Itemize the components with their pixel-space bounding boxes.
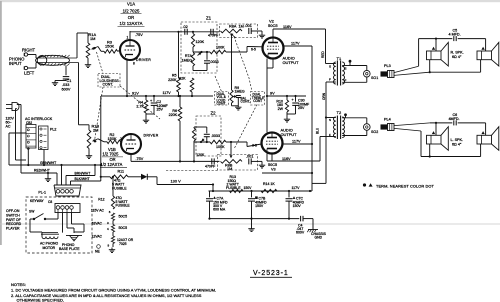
svg-text:R. SPK.: R. SPK. bbox=[451, 50, 464, 54]
svg-text:+: + bbox=[292, 98, 295, 102]
svg-text:.75V: .75V bbox=[136, 157, 144, 161]
svg-text:BRN/WHT: BRN/WHT bbox=[75, 171, 91, 175]
svg-text:50C5: 50C5 bbox=[119, 215, 128, 219]
svg-text:GND: GND bbox=[315, 236, 323, 240]
svg-text:.0033: .0033 bbox=[210, 60, 219, 64]
svg-text:120K: 120K bbox=[196, 40, 205, 44]
svg-text:CONT: CONT bbox=[217, 102, 226, 106]
svg-text:OTHERWISE SPECIFIED.: OTHERWISE SPECIFIED. bbox=[17, 298, 65, 302]
svg-text:OFF-ON: OFF-ON bbox=[6, 209, 20, 213]
svg-text:Z2: Z2 bbox=[211, 111, 217, 116]
svg-text:115V AC: 115V AC bbox=[91, 209, 105, 213]
svg-text:8: 8 bbox=[133, 62, 135, 66]
svg-text:KEYWAY: KEYWAY bbox=[30, 199, 45, 203]
svg-text:TERM. NEAREST COLOR DOT: TERM. NEAREST COLOR DOT bbox=[376, 184, 435, 189]
svg-text:25V: 25V bbox=[157, 108, 164, 112]
svg-text:GRN/WHT: GRN/WHT bbox=[40, 161, 56, 165]
svg-text:3-8: 3-8 bbox=[252, 144, 257, 148]
svg-text:100K: 100K bbox=[216, 46, 225, 50]
svg-text:220K: 220K bbox=[168, 78, 177, 82]
svg-text:SWITCH: SWITCH bbox=[6, 213, 20, 217]
svg-text:PL2: PL2 bbox=[50, 127, 56, 131]
svg-text:PL4: PL4 bbox=[384, 117, 391, 121]
svg-text:50C5: 50C5 bbox=[268, 23, 278, 28]
svg-text:SW: SW bbox=[29, 210, 35, 214]
svg-text:.75V: .75V bbox=[135, 33, 143, 37]
svg-text:BASE PLATE: BASE PLATE bbox=[59, 247, 80, 251]
svg-text:25V: 25V bbox=[298, 106, 305, 110]
svg-text:9: 9 bbox=[108, 243, 110, 247]
svg-text:F: F bbox=[329, 78, 331, 82]
svg-text:4MFD.: 4MFD. bbox=[449, 117, 460, 121]
svg-text:V-2523-1: V-2523-1 bbox=[253, 270, 289, 277]
svg-text:BLK/WHT: BLK/WHT bbox=[75, 177, 90, 181]
svg-text:600 MA: 600 MA bbox=[213, 208, 226, 212]
svg-text:V1A: V1A bbox=[127, 2, 135, 7]
svg-text:1/2 7025: 1/2 7025 bbox=[123, 8, 140, 13]
svg-text:50C5: 50C5 bbox=[119, 226, 128, 230]
svg-text:82K: 82K bbox=[179, 76, 186, 80]
svg-text:120K: 120K bbox=[196, 153, 205, 157]
svg-text:C8: C8 bbox=[48, 200, 52, 204]
svg-text:FUSIBLE: FUSIBLE bbox=[112, 186, 127, 190]
svg-text:1/2 12AX7A: 1/2 12AX7A bbox=[120, 21, 143, 26]
svg-text:470PF: 470PF bbox=[208, 34, 218, 38]
svg-text:R14 1K: R14 1K bbox=[263, 182, 275, 186]
svg-text:117V: 117V bbox=[163, 91, 172, 95]
svg-text:S: S bbox=[345, 67, 347, 71]
svg-text:SO2: SO2 bbox=[371, 130, 378, 134]
svg-text:2M: 2M bbox=[93, 127, 98, 132]
svg-text:PART OF: PART OF bbox=[6, 218, 21, 222]
svg-text:1/2 7025: 1/2 7025 bbox=[103, 152, 120, 157]
svg-text:ORN: ORN bbox=[322, 92, 326, 100]
svg-text:91V: 91V bbox=[132, 91, 139, 95]
svg-text:1MEG: 1MEG bbox=[235, 90, 245, 94]
svg-text:6Ω 4″: 6Ω 4″ bbox=[452, 142, 462, 146]
svg-text:Z1: Z1 bbox=[206, 16, 212, 21]
svg-text:7025: 7025 bbox=[119, 242, 127, 246]
svg-text:RIGHT: RIGHT bbox=[22, 48, 35, 53]
svg-text:R12: R12 bbox=[98, 197, 104, 201]
svg-text:V3: V3 bbox=[271, 167, 276, 171]
svg-text:150V: 150V bbox=[293, 204, 302, 208]
svg-text:BLU: BLU bbox=[316, 127, 320, 134]
svg-text:SO1: SO1 bbox=[371, 76, 378, 80]
svg-text:2W: 2W bbox=[278, 107, 284, 111]
svg-text:T1: T1 bbox=[337, 56, 342, 61]
svg-text:OR: OR bbox=[128, 15, 134, 20]
svg-text:117V: 117V bbox=[291, 42, 300, 46]
svg-text:T2: T2 bbox=[337, 110, 342, 115]
svg-text:R8A: R8A bbox=[229, 25, 237, 29]
svg-text:470PF: 470PF bbox=[205, 165, 215, 169]
svg-text:DRIVER: DRIVER bbox=[136, 58, 151, 62]
svg-text:1M: 1M bbox=[90, 36, 95, 41]
svg-text:PL-1: PL-1 bbox=[38, 190, 46, 194]
svg-text:1: 1 bbox=[127, 36, 129, 40]
svg-text:150V: 150V bbox=[255, 204, 264, 208]
svg-text:NE: NE bbox=[95, 249, 100, 253]
svg-text:2: 2 bbox=[120, 137, 122, 141]
svg-text:220K: 220K bbox=[169, 113, 178, 117]
svg-text:1/2 12AX7A: 1/2 12AX7A bbox=[101, 162, 123, 167]
svg-text:6Ω 4″: 6Ω 4″ bbox=[452, 55, 462, 59]
svg-text:1M: 1M bbox=[239, 25, 244, 29]
svg-text:4 MFD.: 4 MFD. bbox=[449, 33, 461, 37]
svg-text:1. DC VOLTAGES MEASURED FROM C: 1. DC VOLTAGES MEASURED FROM CIRCUIT GRO… bbox=[11, 288, 216, 293]
svg-text:62VAC: 62VAC bbox=[92, 222, 103, 226]
svg-text:150V: 150V bbox=[244, 186, 253, 190]
svg-text:.001: .001 bbox=[245, 24, 252, 28]
svg-text:OUTPUT: OUTPUT bbox=[281, 132, 298, 137]
svg-text:RECORD: RECORD bbox=[6, 222, 22, 226]
svg-text:CONT: CONT bbox=[253, 99, 262, 103]
svg-text:RED: RED bbox=[321, 51, 325, 58]
svg-text:DRIVER: DRIVER bbox=[144, 134, 159, 138]
svg-text:3: 3 bbox=[107, 221, 109, 225]
svg-text:+: + bbox=[150, 99, 153, 103]
svg-text:600V: 600V bbox=[296, 231, 305, 235]
svg-text:LEFT: LEFT bbox=[24, 71, 35, 76]
svg-text:FUSIBLE: FUSIBLE bbox=[226, 186, 241, 190]
svg-text:6: 6 bbox=[109, 210, 111, 214]
svg-text:117V: 117V bbox=[292, 186, 301, 190]
svg-text:130 V: 130 V bbox=[171, 179, 182, 184]
svg-text:R11: R11 bbox=[118, 170, 125, 174]
svg-text:4: 4 bbox=[107, 227, 109, 231]
svg-text:6-5: 6-5 bbox=[251, 47, 256, 51]
svg-text:1MEG: 1MEG bbox=[182, 58, 193, 62]
svg-text:CONT.: CONT. bbox=[241, 100, 251, 104]
svg-text:CONT.: CONT. bbox=[103, 83, 114, 87]
svg-text:9V: 9V bbox=[270, 91, 275, 95]
svg-text:.02: .02 bbox=[183, 25, 188, 29]
svg-text:AC: AC bbox=[6, 124, 11, 128]
svg-text:100K: 100K bbox=[216, 145, 225, 149]
svg-text:RED/WHT: RED/WHT bbox=[34, 169, 50, 173]
svg-text:1M: 1M bbox=[227, 167, 232, 171]
svg-text:.0033: .0033 bbox=[211, 134, 220, 138]
svg-text:12VAC: 12VAC bbox=[92, 235, 103, 239]
svg-text:S: S bbox=[329, 118, 331, 122]
svg-text:NOTES:: NOTES: bbox=[11, 282, 26, 287]
svg-text:116V: 116V bbox=[282, 157, 291, 161]
svg-text:PL3: PL3 bbox=[384, 64, 391, 68]
svg-text:L. SPK.: L. SPK. bbox=[451, 138, 464, 142]
svg-text:117V: 117V bbox=[292, 139, 301, 143]
svg-text:FUSIBLE: FUSIBLE bbox=[116, 204, 131, 208]
svg-text:INPUT: INPUT bbox=[9, 61, 22, 66]
svg-text:150K: 150K bbox=[105, 44, 114, 49]
svg-text:OUTPUT: OUTPUT bbox=[283, 60, 300, 65]
svg-text:.001: .001 bbox=[246, 155, 253, 159]
svg-text:MOTOR: MOTOR bbox=[43, 246, 56, 250]
svg-text:S: S bbox=[329, 65, 331, 69]
svg-text:PLAYER: PLAYER bbox=[6, 227, 20, 231]
svg-text:600V: 600V bbox=[62, 87, 71, 91]
